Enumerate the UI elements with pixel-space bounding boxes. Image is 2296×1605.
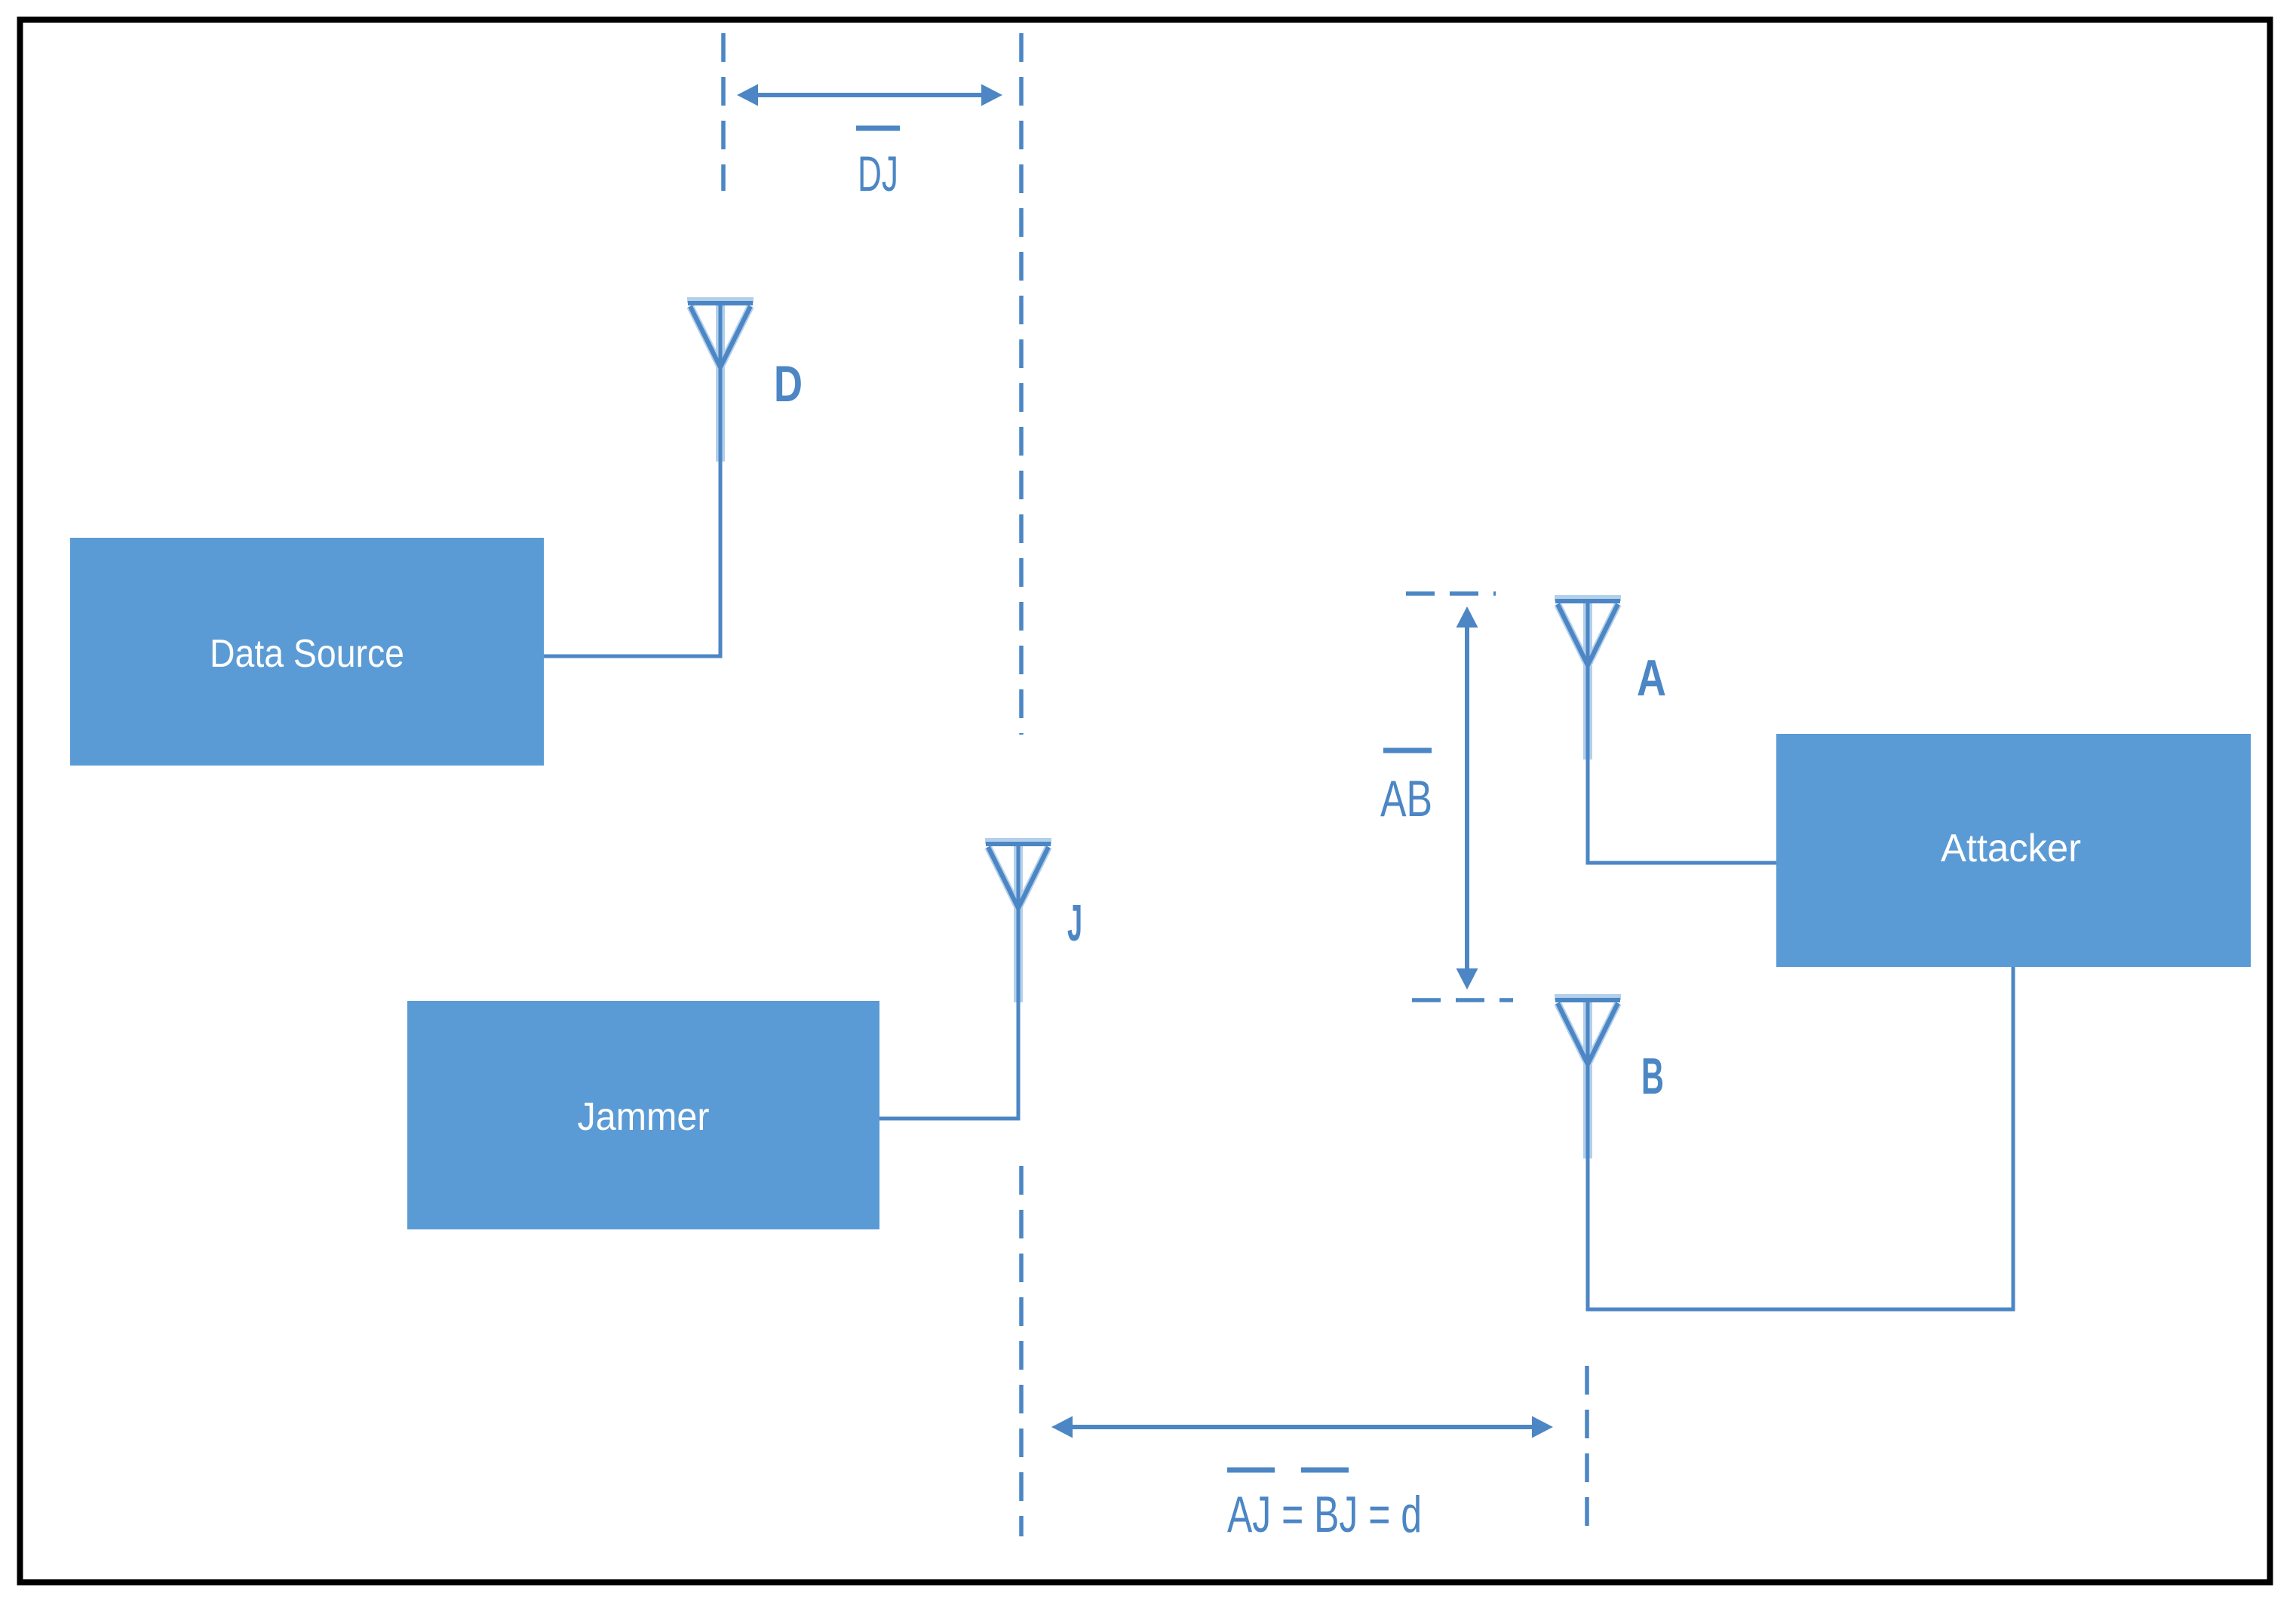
svg-text:J: J	[1067, 895, 1082, 952]
Jammer box	[407, 1001, 879, 1229]
Data Source box	[70, 538, 544, 766]
svg-text:AJ = BJ = d: AJ = BJ = d	[1227, 1486, 1422, 1543]
Attacker box	[1776, 734, 2251, 967]
dashed tick below A (AB measure bottom)	[1412, 998, 1513, 1002]
dimension arrow DJ	[737, 84, 1002, 106]
wire: Attacker box to antenna A	[1588, 756, 1776, 863]
dashed guide line at J (upper segment)	[1019, 33, 1024, 735]
dimension arrow AJ/BJ	[1051, 1416, 1553, 1438]
antenna J	[985, 838, 1051, 1002]
svg-text:AB: AB	[1380, 770, 1432, 827]
wire: Attacker box to antenna B	[1588, 967, 2013, 1309]
wire: Data Source box to antenna D	[544, 459, 720, 656]
antenna A	[1555, 595, 1621, 760]
wire: Jammer box to antenna J	[879, 999, 1018, 1119]
dashed tick above A (AB measure top)	[1406, 591, 1496, 596]
svg-text:A: A	[1637, 649, 1666, 707]
svg-text:Data Source: Data Source	[210, 632, 404, 676]
svg-text:Jammer: Jammer	[578, 1095, 710, 1139]
label AJ = BJ = d with overlines	[1227, 1470, 1422, 1543]
antenna D	[687, 297, 754, 462]
svg-text:Attacker: Attacker	[1941, 827, 2081, 870]
svg-text:DJ: DJ	[858, 146, 898, 201]
dashed guide line at B (bottom right, short)	[1585, 1366, 1589, 1527]
svg-text:B: B	[1641, 1048, 1664, 1105]
dashed guide line at J (lower segment)	[1019, 1166, 1024, 1536]
antenna B	[1555, 994, 1621, 1158]
dimension arrow AB	[1456, 606, 1478, 990]
label DJ with overline	[856, 128, 900, 201]
svg-text:D: D	[774, 355, 803, 413]
label AB with overline	[1380, 750, 1432, 827]
dashed guide line at D (short, top)	[721, 33, 726, 191]
